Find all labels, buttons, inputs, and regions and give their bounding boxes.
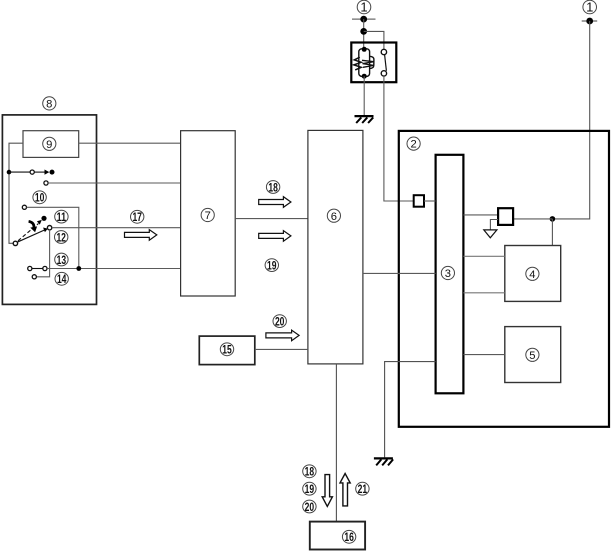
node bar right [582,20,598,22]
bold rotation arrow [29,221,37,232]
wire junction to connector square [513,218,552,220]
label 19 bottom [303,482,316,496]
svg-text:19: 19 [267,259,277,272]
contact 14 circle [32,275,36,279]
svg-text:14: 14 [57,273,67,286]
junction dot at node 1 left [360,16,367,23]
relay coil winding zigzag [354,57,374,70]
label 2 [407,137,420,151]
ground (relay coil) [355,116,374,123]
junction dot branch [360,28,367,35]
box 4 [505,246,561,302]
svg-text:9: 9 [46,139,52,151]
svg-text:21: 21 [358,483,368,496]
wire connector square to box 3 [424,200,436,202]
wire from node 1 down to relay coil [363,19,365,50]
svg-text:16: 16 [344,531,354,544]
flow arrow up (21) [340,474,350,506]
label 5 [526,348,539,362]
node 1 (left power node label) [357,0,371,15]
row 13 contact circles [28,266,47,270]
lever solid arm with arrowhead [17,228,48,243]
wire relay coil to ground [363,76,365,115]
svg-text:8: 8 [46,98,52,110]
label 4 [526,267,539,281]
relay coil terminal dots [362,47,367,52]
wire box 6 down to box 16 [335,364,337,522]
ground (box 3) [374,458,393,465]
svg-text:2: 2 [410,139,416,151]
switch a wire [9,171,30,173]
label 12 [55,231,68,245]
svg-text:11: 11 [57,211,67,224]
label 11 [55,210,68,224]
wire box 3 to connector square mid [463,214,498,216]
svg-text:3: 3 [445,268,451,280]
flow arrow 19 [259,231,291,242]
svg-text:1: 1 [586,0,593,15]
svg-text:18: 18 [305,466,315,479]
label 10 [33,191,46,205]
label 7 [201,208,214,222]
box 6 [308,130,363,364]
dashed lever position line with arrowhead [18,220,42,241]
flow arrow 18 [259,197,291,208]
label 8 [43,97,56,111]
wires box 3 to box 4 [463,256,504,293]
label 13 [55,253,68,267]
wire branch to relay switch [364,31,384,50]
label 20 [273,315,286,329]
junction dot row a [7,170,12,175]
label 20 bottom [303,500,316,514]
contact 10 circle [22,205,26,209]
svg-text:20: 20 [275,315,285,328]
common contact circle [13,241,17,245]
svg-text:10: 10 [35,192,45,205]
label 18 bottom [303,465,316,479]
wire junction down to box 4 [551,219,553,246]
switch b contact circle [44,181,48,185]
connector square left [414,195,424,207]
connector square mid [498,208,513,225]
wire relay switch to ecu connector [384,76,414,201]
box 2 (control unit) [399,131,609,427]
flow arrow down (18 19 20) [322,475,332,507]
junction dot above box 4 [550,216,556,222]
antenna triangle [484,230,497,238]
label 16 [342,530,355,544]
switch a contact circle [30,170,34,174]
label 15 [220,343,233,357]
contact 11 dot [41,216,46,221]
junction dot at node 1 right [586,18,593,25]
box 3 [436,155,464,393]
box 16 [310,522,365,550]
wire box 3 to box 5 [463,354,504,356]
branch to antenna triangle [490,220,498,230]
wire switch b to box 7 [48,182,180,184]
svg-text:7: 7 [205,210,211,222]
wire from right node 1 down into box 2 [552,21,589,219]
box 8 (switch assembly) [2,115,96,305]
label 6 [327,209,340,223]
wire box 6 to box 3 [363,272,436,274]
contact 12 circle [47,226,51,230]
wire box 3 to ground 2 [385,362,436,458]
switch a arm with arrowhead [35,170,50,175]
node 1 (right power node label) [583,0,597,15]
svg-text:4: 4 [529,269,535,281]
svg-text:5: 5 [529,350,535,362]
box 7 [181,131,236,296]
label 9 [43,137,56,151]
label 3 [441,266,454,280]
flow arrow 17 [125,230,157,241]
label 21 [356,482,369,496]
svg-text:12: 12 [56,231,66,244]
wire row 13 to box 7 [47,268,181,270]
label 17 [131,210,144,224]
svg-text:6: 6 [331,211,337,223]
junction dot row 13 [76,266,81,271]
svg-text:19: 19 [305,483,315,496]
wire box 9 right to box 7 [79,142,181,144]
switch a closed dot [50,170,55,175]
label 18 [266,181,279,195]
wire contact 12 to box 7 [52,227,181,229]
svg-text:1: 1 [360,0,367,15]
svg-text:15: 15 [222,344,232,357]
svg-text:20: 20 [305,501,315,514]
box 15 [199,336,255,365]
label 14 [55,272,68,286]
box 9 [23,131,79,158]
label 19 [265,259,278,273]
svg-text:13: 13 [57,254,67,267]
wire contact 10 down to row 13 [27,207,79,268]
box 5 [505,327,561,383]
flow arrow 20 [266,330,299,341]
node bar left [352,18,376,20]
wire box 7 to box 6 [235,218,308,220]
wire box 15 to box 6 [255,348,308,350]
wire contact 12 down to contact 14 [37,230,50,277]
svg-text:18: 18 [268,181,278,194]
wire box 9 left to common [9,143,23,243]
relay box [351,43,396,83]
relay switch contacts [381,49,386,76]
relay coil body [359,49,374,77]
svg-text:17: 17 [132,211,142,224]
